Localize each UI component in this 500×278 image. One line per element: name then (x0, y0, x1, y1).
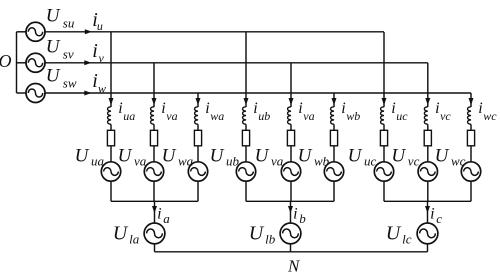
svg-text:wa: wa (210, 109, 224, 123)
svg-text:i: i (92, 40, 98, 62)
svg-text:wc: wc (451, 153, 466, 168)
svg-text:vc: vc (408, 153, 420, 168)
svg-text:la: la (129, 232, 140, 247)
svg-text:su: su (63, 16, 75, 31)
svg-text:i: i (435, 100, 439, 117)
svg-text:U: U (46, 6, 61, 27)
svg-text:U: U (46, 65, 61, 86)
svg-text:U: U (298, 145, 313, 166)
svg-text:ua: ua (91, 153, 105, 168)
svg-text:c: c (436, 211, 442, 226)
svg-text:U: U (118, 145, 133, 166)
svg-text:i: i (157, 206, 161, 223)
svg-text:sv: sv (63, 46, 74, 61)
svg-text:U: U (249, 222, 265, 244)
svg-text:i: i (478, 100, 482, 117)
svg-text:va: va (303, 109, 314, 123)
svg-text:i: i (341, 100, 345, 117)
svg-text:wb: wb (314, 153, 330, 168)
svg-text:sw: sw (63, 75, 77, 90)
svg-text:U: U (113, 222, 129, 244)
svg-text:vc: vc (440, 109, 451, 123)
svg-text:U: U (255, 145, 270, 166)
svg-text:wa: wa (178, 153, 194, 168)
svg-text:b: b (299, 211, 306, 226)
svg-text:N: N (287, 256, 301, 273)
svg-text:ub: ub (226, 153, 240, 168)
svg-text:ua: ua (123, 109, 135, 123)
svg-text:w: w (98, 81, 106, 95)
svg-text:wc: wc (483, 109, 497, 123)
svg-text:va: va (134, 153, 147, 168)
svg-text:lc: lc (402, 232, 412, 247)
svg-text:i: i (298, 100, 302, 117)
svg-text:i: i (430, 206, 434, 223)
svg-text:v: v (99, 51, 105, 65)
svg-text:va: va (166, 109, 177, 123)
svg-text:U: U (348, 145, 363, 166)
svg-text:uc: uc (364, 153, 377, 168)
svg-text:i: i (205, 100, 209, 117)
svg-text:i: i (161, 100, 165, 117)
svg-text:i: i (253, 100, 257, 117)
svg-text:U: U (435, 145, 450, 166)
svg-text:ub: ub (258, 109, 270, 123)
svg-text:U: U (386, 222, 402, 244)
svg-text:wb: wb (346, 109, 360, 123)
svg-text:U: U (46, 36, 61, 57)
svg-text:U: U (391, 145, 406, 166)
svg-text:uc: uc (396, 109, 408, 123)
svg-text:U: U (210, 145, 225, 166)
svg-text:i: i (293, 206, 297, 223)
svg-text:U: U (162, 145, 177, 166)
svg-text:u: u (97, 19, 103, 33)
svg-text:a: a (163, 211, 170, 226)
svg-text:va: va (271, 153, 284, 168)
svg-text:i: i (118, 100, 122, 117)
svg-text:lb: lb (265, 232, 276, 247)
svg-text:i: i (391, 100, 395, 117)
svg-text:U: U (75, 145, 90, 166)
svg-text:O: O (0, 51, 12, 71)
